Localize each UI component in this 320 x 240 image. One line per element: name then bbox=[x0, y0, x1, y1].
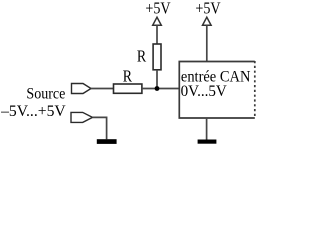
ground GND1 bbox=[97, 139, 117, 144]
wire J1 to R2 bbox=[91, 88, 114, 90]
svg-text:R: R bbox=[137, 46, 146, 65]
wire J2 to ground bbox=[93, 117, 107, 139]
svg-text:Source: Source bbox=[26, 86, 65, 103]
power arrow +5V left bbox=[153, 17, 162, 25]
power arrow +5V right bbox=[203, 17, 212, 25]
junction node bbox=[155, 86, 160, 91]
wire R1 to junction bbox=[156, 70, 158, 89]
svg-text:–5V...+5V: –5V...+5V bbox=[0, 102, 66, 120]
connector J2 (source ground) bbox=[71, 112, 93, 122]
svg-text:+5V: +5V bbox=[195, 0, 220, 18]
wire R2 to box bbox=[142, 88, 179, 90]
svg-text:+5V: +5V bbox=[145, 0, 170, 18]
wire arrow2 to box bbox=[206, 25, 208, 61]
box dashed right edge bbox=[254, 61, 256, 119]
wire box to ground bbox=[206, 118, 208, 140]
svg-text:0V...5V: 0V...5V bbox=[181, 82, 227, 100]
svg-text:R: R bbox=[123, 66, 132, 85]
wire arrow1 to R1 bbox=[156, 25, 158, 44]
connector J1 (source output) bbox=[72, 84, 92, 94]
resistor R2 (horizontal) bbox=[114, 84, 142, 93]
resistor R1 (vertical) bbox=[153, 44, 161, 70]
ground GND2 bbox=[198, 140, 217, 144]
box entree CAN bbox=[179, 62, 255, 119]
